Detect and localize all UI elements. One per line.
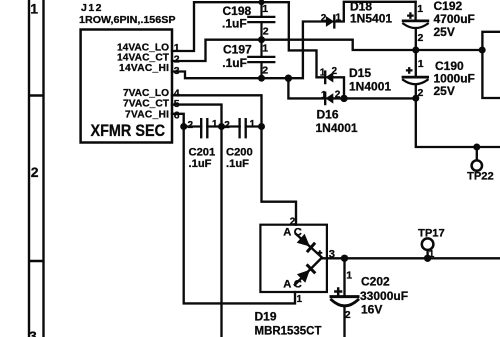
svg-text:16V: 16V (361, 303, 382, 317)
svg-text:2: 2 (332, 66, 338, 77)
svg-text:2: 2 (188, 120, 194, 131)
svg-text:1: 1 (346, 269, 352, 281)
svg-text:C: C (294, 279, 302, 291)
svg-text:25V: 25V (434, 25, 455, 39)
svg-text:7VAC_LO: 7VAC_LO (123, 88, 169, 99)
svg-text:.1uF: .1uF (189, 158, 212, 170)
svg-text:1N4001: 1N4001 (349, 80, 391, 94)
svg-text:3: 3 (174, 65, 180, 77)
svg-text:2: 2 (418, 87, 424, 99)
svg-text:1: 1 (417, 3, 423, 15)
svg-text:1: 1 (212, 119, 218, 130)
svg-text:1: 1 (262, 3, 268, 15)
svg-text:1: 1 (321, 90, 327, 101)
svg-text:D19: D19 (255, 310, 277, 324)
svg-text:C202: C202 (361, 275, 390, 289)
svg-text:1: 1 (174, 42, 180, 54)
svg-text:25V: 25V (434, 84, 455, 98)
svg-text:2: 2 (335, 90, 341, 101)
svg-text:J12: J12 (81, 2, 103, 14)
svg-text:1: 1 (30, 1, 38, 17)
svg-text:1: 1 (320, 67, 326, 78)
svg-text:.1uF: .1uF (222, 56, 247, 70)
svg-text:4700uF: 4700uF (434, 12, 475, 26)
svg-text:A: A (283, 227, 291, 239)
svg-text:6: 6 (174, 110, 180, 122)
svg-text:14VAC_CT: 14VAC_CT (117, 53, 170, 64)
svg-text:1: 1 (429, 249, 435, 260)
svg-text:.1uF: .1uF (226, 158, 249, 170)
svg-text:2: 2 (345, 309, 351, 321)
svg-text:2: 2 (321, 13, 327, 24)
svg-text:TP17: TP17 (418, 228, 445, 240)
svg-text:3: 3 (329, 249, 335, 261)
svg-text:D15: D15 (349, 66, 371, 80)
svg-text:2: 2 (290, 216, 296, 227)
svg-text:C: C (294, 227, 302, 239)
svg-text:5: 5 (174, 98, 180, 110)
svg-text:2: 2 (418, 32, 424, 44)
svg-text:7VAC_CT: 7VAC_CT (123, 99, 170, 110)
svg-text:33000uF: 33000uF (360, 289, 408, 303)
svg-text:1: 1 (262, 43, 268, 55)
svg-text:2: 2 (224, 120, 230, 131)
svg-text:MBR1535CT: MBR1535CT (255, 324, 323, 337)
svg-text:.1uF: .1uF (222, 17, 247, 31)
svg-text:7VAC_HI: 7VAC_HI (125, 110, 169, 121)
svg-text:3: 3 (29, 328, 37, 337)
svg-text:XFMR SEC: XFMR SEC (91, 121, 166, 140)
svg-text:1: 1 (250, 119, 256, 130)
svg-text:1: 1 (297, 294, 303, 305)
svg-text:1N4001: 1N4001 (316, 121, 358, 135)
svg-text:C200: C200 (226, 147, 253, 159)
svg-text:TP22: TP22 (467, 171, 494, 183)
svg-text:C201: C201 (189, 147, 216, 159)
svg-text:1: 1 (336, 13, 342, 24)
svg-text:1N5401: 1N5401 (350, 12, 392, 26)
svg-text:2: 2 (174, 54, 180, 66)
svg-text:1ROW,6PIN,.156SP: 1ROW,6PIN,.156SP (79, 14, 176, 26)
svg-text:C197: C197 (223, 42, 252, 56)
svg-text:2: 2 (263, 26, 269, 38)
svg-text:14VAC_HI: 14VAC_HI (119, 63, 169, 74)
svg-text:2: 2 (262, 65, 268, 77)
svg-text:D16: D16 (317, 108, 339, 122)
svg-text:1: 1 (418, 58, 424, 70)
svg-text:A: A (283, 279, 291, 291)
svg-text:2: 2 (31, 164, 39, 180)
